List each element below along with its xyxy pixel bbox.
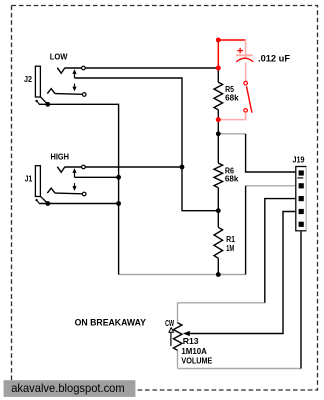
svg-text:J2: J2 bbox=[24, 75, 32, 84]
junction R5/R6 node bbox=[216, 131, 221, 136]
svg-text:68k: 68k bbox=[225, 94, 239, 103]
resistor R6 68k bbox=[214, 163, 223, 211]
wire cap to switch (pink) bbox=[245, 62, 247, 81]
junction J2 sleeve bbox=[45, 102, 50, 107]
svg-text:LOW: LOW bbox=[50, 53, 68, 62]
switch SW1 (cap engage) bbox=[244, 81, 252, 112]
svg-text:CW: CW bbox=[165, 319, 174, 328]
wire R13 top lead bbox=[177, 303, 179, 323]
wire cap top lead (pink) bbox=[245, 40, 247, 58]
label HIGH bbox=[51, 153, 70, 162]
wire J19 pin2 stub bbox=[246, 185, 301, 187]
wire R5 bottom to R6 top bbox=[217, 120, 219, 164]
svg-text:J19: J19 bbox=[293, 156, 305, 165]
svg-text:R1: R1 bbox=[226, 235, 235, 244]
label R13 CW bbox=[165, 319, 174, 328]
label C value .012 uF bbox=[258, 54, 291, 64]
node R5 bottom / switch junction (red dot) bbox=[216, 117, 221, 122]
node A J2 tip / R5 / cap junction (red dot) bbox=[216, 66, 221, 71]
label R6 value bbox=[225, 167, 239, 184]
potentiometer R13 bbox=[169, 323, 190, 351]
svg-text:ON BREAKAWAY: ON BREAKAWAY bbox=[75, 317, 146, 327]
wire R13 bottom to pin5 riser bbox=[178, 368, 302, 370]
wire J2 NC contact to R6 bottom bbox=[75, 78, 219, 211]
junction bus x J1 NC bbox=[116, 175, 121, 180]
connector J19 bbox=[296, 167, 306, 231]
junction bus x J1 sleeve bbox=[116, 201, 121, 206]
wire cap branch top (red) bbox=[218, 40, 245, 68]
label J2 bbox=[24, 75, 32, 84]
junction J1 sleeve bbox=[45, 201, 50, 206]
wire J19 pin3 riser and stub bbox=[265, 199, 301, 303]
wire R13 wiper to J19 pin4 bbox=[189, 212, 301, 334]
junction R1 bottom ground node bbox=[216, 272, 221, 277]
label J19 bbox=[293, 156, 305, 165]
wire R13 bottom lead bbox=[177, 350, 179, 369]
junction J1 tip x J2 NC riser bbox=[180, 165, 185, 170]
label ON BREAKAWAY bbox=[75, 317, 146, 327]
node cap branch corner (red dot) bbox=[216, 38, 221, 43]
label R1 value bbox=[226, 235, 235, 253]
watermark akavalve.blogspot.com bbox=[4, 380, 136, 397]
wire J2 sleeve to ground bus bbox=[39, 104, 119, 274]
svg-text:VOLUME: VOLUME bbox=[181, 356, 212, 366]
wire ground bus bottom run to pin2 riser bbox=[119, 274, 246, 276]
wire R5/R6 junction to pin1 riser (gray stub) bbox=[218, 133, 245, 135]
capacitor C .012uF bbox=[236, 48, 253, 62]
svg-text:.012 uF: .012 uF bbox=[258, 54, 291, 64]
wire J19 pin5 riser bbox=[300, 225, 302, 369]
svg-text:akavalve.blogspot.com: akavalve.blogspot.com bbox=[11, 381, 125, 395]
wire pin3 riser to R13 CW terminal bbox=[178, 302, 265, 304]
resistor R5 68k bbox=[214, 68, 223, 120]
wire J1 NC contact to ground bus bbox=[75, 176, 119, 178]
wire J1 tip to J2 NC riser bbox=[65, 166, 182, 168]
wire J1 sleeve to ground bus bbox=[39, 203, 119, 205]
wire J2 tip to node A bbox=[65, 67, 218, 69]
junction R6 bottom node bbox=[216, 208, 221, 213]
svg-text:J1: J1 bbox=[25, 175, 33, 184]
label R5 value bbox=[225, 85, 239, 103]
svg-text:1M: 1M bbox=[226, 244, 234, 253]
label J1 bbox=[25, 175, 33, 184]
label LOW bbox=[50, 53, 68, 62]
svg-text:68k: 68k bbox=[225, 174, 239, 183]
svg-text:1M10A: 1M10A bbox=[181, 346, 207, 356]
jack J2 bbox=[35, 66, 86, 104]
wire pin2 riser bbox=[245, 186, 247, 275]
wire R6 bottom to R1 top bbox=[217, 211, 219, 228]
resistor R1 1M bbox=[214, 227, 223, 274]
wire switch to R5 bottom (pink) bbox=[218, 112, 245, 119]
wire pin1 riser and stub bbox=[246, 134, 301, 172]
svg-text:HIGH: HIGH bbox=[51, 153, 70, 162]
jack J1 bbox=[35, 165, 86, 203]
label R13 value bbox=[181, 336, 212, 366]
svg-text:R13: R13 bbox=[183, 336, 199, 346]
